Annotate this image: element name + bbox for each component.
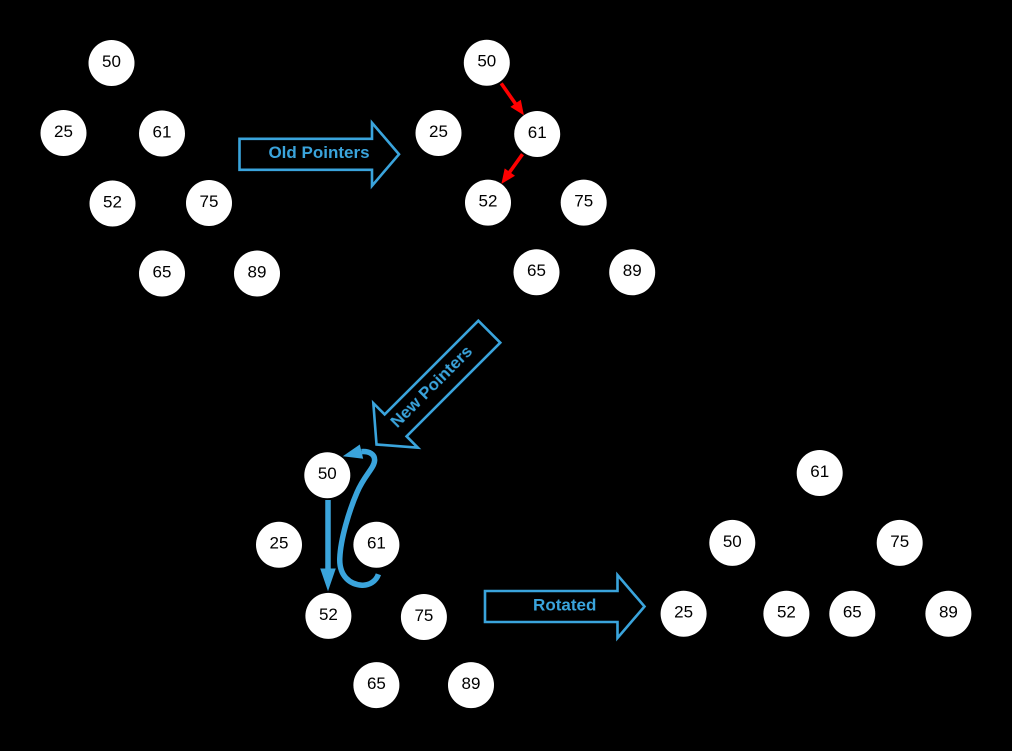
node 50 [464, 40, 510, 86]
node 50 [304, 452, 350, 498]
svg-text:65: 65 [367, 674, 386, 693]
red pointer arrow 50 to 61 [501, 83, 524, 115]
node 25 [41, 110, 87, 156]
node 65 [353, 662, 399, 708]
svg-text:50: 50 [318, 464, 337, 483]
node 61 [797, 450, 843, 496]
svg-text:89: 89 [248, 262, 267, 281]
node 89 [609, 249, 655, 295]
svg-text:65: 65 [527, 261, 546, 280]
node 61 [514, 111, 560, 157]
node 52 [90, 181, 136, 227]
block arrow "Old Pointers" [240, 123, 400, 186]
svg-text:50: 50 [102, 52, 121, 71]
node 25 [661, 591, 707, 637]
block arrow "New Pointers" (diagonal) [354, 309, 511, 466]
node 75 [877, 520, 923, 566]
svg-text:65: 65 [153, 262, 172, 281]
svg-text:61: 61 [153, 122, 172, 141]
svg-text:61: 61 [528, 123, 547, 142]
svg-text:50: 50 [477, 52, 496, 71]
red pointer arrow 61 to 52 [501, 154, 522, 184]
node 52 [465, 180, 511, 226]
svg-text:75: 75 [574, 192, 593, 211]
svg-text:25: 25 [54, 122, 73, 141]
blue new-pointer curved arrow 61 to 50 [340, 445, 379, 586]
svg-text:89: 89 [462, 674, 481, 693]
node 52 [763, 591, 809, 637]
node 25 [256, 522, 302, 568]
svg-text:52: 52 [319, 605, 338, 624]
node 50 [709, 520, 755, 566]
node 61 [139, 111, 185, 157]
svg-text:75: 75 [890, 532, 909, 551]
svg-text:61: 61 [367, 534, 386, 553]
svg-text:25: 25 [674, 603, 693, 622]
node 89 [234, 251, 280, 297]
node 65 [514, 249, 560, 295]
node 61 [353, 522, 399, 568]
svg-text:65: 65 [843, 603, 862, 622]
svg-text:Old Pointers: Old Pointers [268, 143, 369, 162]
node 65 [139, 251, 185, 297]
block arrow "Rotated" [485, 575, 645, 638]
svg-text:50: 50 [723, 532, 742, 551]
svg-text:25: 25 [429, 122, 448, 141]
node 75 [186, 180, 232, 226]
node 89 [448, 662, 494, 708]
svg-text:25: 25 [270, 534, 289, 553]
node 65 [829, 591, 875, 637]
svg-text:52: 52 [479, 192, 498, 211]
svg-text:75: 75 [414, 606, 433, 625]
node 75 [561, 180, 607, 226]
svg-text:75: 75 [200, 192, 219, 211]
node 75 [401, 594, 447, 640]
svg-text:61: 61 [810, 462, 829, 481]
svg-text:52: 52 [777, 603, 796, 622]
node 89 [925, 591, 971, 637]
node 50 [89, 40, 135, 86]
svg-text:Rotated: Rotated [533, 595, 596, 614]
svg-text:52: 52 [103, 192, 122, 211]
node 52 [305, 593, 351, 639]
node 25 [416, 110, 462, 156]
blue new-pointer arrow 50 to 52 (straight down) [320, 500, 336, 591]
svg-text:89: 89 [623, 261, 642, 280]
svg-text:89: 89 [939, 603, 958, 622]
